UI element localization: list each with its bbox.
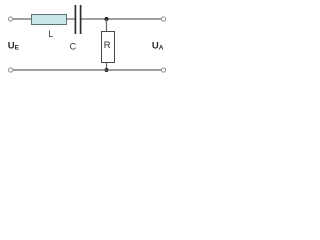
- wire: top-left terminal to L: [13, 18, 32, 20]
- wire: bottom rail: [13, 69, 161, 71]
- input terminal top (U_E +): [9, 17, 13, 21]
- wire: junction to R top: [106, 19, 108, 32]
- svg-text:L: L: [48, 29, 53, 39]
- capacitor C plate 1: [74, 5, 76, 34]
- node junction dot bottom: [105, 68, 109, 72]
- svg-text:C: C: [70, 42, 77, 52]
- inductor L (body): [32, 15, 67, 25]
- svg-text:UA: UA: [152, 40, 164, 51]
- wire: R bottom to bottom rail: [106, 63, 108, 71]
- node junction dot top: [105, 17, 109, 21]
- wire: L to C: [66, 18, 75, 20]
- output terminal bottom (U_A -): [162, 68, 166, 72]
- wire: C to output terminal top: [82, 18, 162, 20]
- output terminal top (U_A +): [162, 17, 166, 21]
- svg-text:R: R: [104, 39, 111, 50]
- resistor R (body): [102, 32, 115, 63]
- capacitor C plate 2: [80, 5, 82, 34]
- svg-text:UE: UE: [8, 40, 20, 51]
- input terminal bottom (U_E -): [9, 68, 13, 72]
